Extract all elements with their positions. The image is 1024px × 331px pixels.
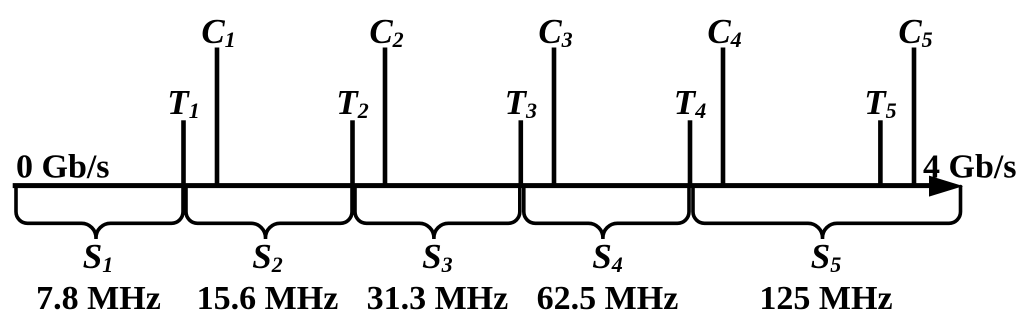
- brace S4: [524, 187, 689, 240]
- tick C5: [912, 48, 917, 189]
- tick T3: [519, 120, 524, 188]
- axis line: [13, 183, 941, 188]
- svg-text:125 MHz: 125 MHz: [759, 280, 892, 317]
- svg-text:4 Gb/s: 4 Gb/s: [923, 149, 1017, 186]
- svg-text:62.5 MHz: 62.5 MHz: [537, 280, 679, 317]
- tick T4: [688, 120, 693, 188]
- tick C3: [552, 48, 557, 189]
- tick T5: [878, 120, 883, 188]
- svg-text:0 Gb/s: 0 Gb/s: [16, 149, 110, 186]
- brace S1: [16, 187, 183, 240]
- brace S5: [693, 187, 961, 240]
- tick C4: [721, 48, 726, 189]
- tick C2: [383, 48, 388, 189]
- tick C1: [215, 48, 220, 189]
- axis arrowhead: [929, 176, 963, 197]
- brace S2: [186, 187, 352, 240]
- svg-text:31.3 MHz: 31.3 MHz: [367, 280, 509, 317]
- svg-text:15.6 MHz: 15.6 MHz: [197, 280, 339, 317]
- svg-text:7.8 MHz: 7.8 MHz: [36, 280, 161, 317]
- tick T2: [350, 120, 355, 188]
- brace S3: [355, 187, 520, 240]
- tick T1: [181, 120, 186, 188]
